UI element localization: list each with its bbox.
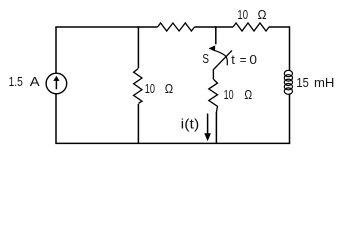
switch S blade xyxy=(214,50,233,69)
svg-text:10: 10 xyxy=(237,7,248,22)
svg-text:10: 10 xyxy=(224,87,234,102)
svg-text:A: A xyxy=(30,74,40,89)
inductor L1 coil loop 4 xyxy=(284,84,292,90)
wire switch branch bottom xyxy=(215,112,217,143)
svg-text:=: = xyxy=(240,52,247,67)
inductor L1 coil loop 3 xyxy=(284,79,292,85)
wire left vertical top xyxy=(55,27,57,73)
wire left vertical bottom xyxy=(55,94,57,144)
inductor L1 coil loop 2 xyxy=(284,75,292,81)
current arrow i(t) shaft xyxy=(207,114,209,136)
wire top rail segment 1 xyxy=(55,26,157,28)
svg-text:mH: mH xyxy=(314,75,334,90)
svg-text:Ω: Ω xyxy=(165,81,174,96)
svg-text:S: S xyxy=(202,52,209,66)
current arrow i(t) head xyxy=(204,133,211,141)
wire right vertical bottom xyxy=(289,94,291,144)
resistor R3 (middle, 10 ohm) xyxy=(134,68,142,103)
resistor R1 (top, unlabeled) xyxy=(158,23,195,31)
switch S arrow head xyxy=(209,45,216,51)
svg-text:t: t xyxy=(231,52,235,67)
wire top rail segment 3 xyxy=(269,26,290,28)
current source I1 arrow head xyxy=(53,76,59,81)
wire switch branch top stub xyxy=(215,26,217,44)
svg-text:i(t): i(t) xyxy=(181,116,200,131)
wire right vertical top xyxy=(289,26,291,70)
current source I1 circle xyxy=(46,73,67,94)
svg-text:10: 10 xyxy=(145,81,155,96)
svg-text:0: 0 xyxy=(249,52,257,67)
wire middle branch top xyxy=(137,26,139,68)
resistor R4 (switch branch, 10 ohm) xyxy=(209,79,218,112)
svg-text:Ω: Ω xyxy=(244,87,252,102)
svg-text:15: 15 xyxy=(296,75,308,90)
current source I1 arrow shaft xyxy=(55,80,57,90)
inductor L1 coil loop 1 xyxy=(284,70,292,76)
switch S motion arc with tail xyxy=(215,51,227,66)
wire bottom rail xyxy=(55,142,290,144)
wire switch blade to resistor xyxy=(212,69,214,79)
wire middle branch bottom xyxy=(137,104,139,143)
wire top rail segment 2 xyxy=(195,26,234,28)
svg-text:1.5: 1.5 xyxy=(9,74,23,89)
inductor L1 coil loop 5 xyxy=(284,88,292,94)
svg-text:Ω: Ω xyxy=(258,7,267,22)
resistor R2 (top right, 10 ohm) xyxy=(233,23,269,31)
